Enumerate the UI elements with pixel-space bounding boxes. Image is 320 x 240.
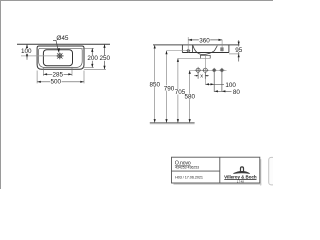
svg-text:100: 100 bbox=[225, 82, 236, 89]
svg-text:100: 100 bbox=[21, 48, 32, 55]
svg-text:Ø45: Ø45 bbox=[56, 35, 69, 42]
svg-text:Villeroy & Boch: Villeroy & Boch bbox=[224, 175, 257, 180]
svg-text:500: 500 bbox=[51, 78, 62, 85]
svg-text:360: 360 bbox=[199, 38, 210, 45]
svg-text:580: 580 bbox=[184, 94, 195, 101]
svg-text:H03 / 17.06.2021: H03 / 17.06.2021 bbox=[175, 176, 203, 180]
svg-text:95: 95 bbox=[235, 47, 243, 54]
svg-text:80: 80 bbox=[233, 89, 241, 96]
svg-text:x: x bbox=[200, 73, 203, 79]
svg-text:434253 436253: 434253 436253 bbox=[175, 165, 199, 169]
svg-text:850: 850 bbox=[150, 82, 161, 89]
svg-text:200: 200 bbox=[87, 55, 98, 62]
svg-text:250: 250 bbox=[99, 55, 110, 62]
svg-text:790: 790 bbox=[164, 85, 175, 92]
svg-text:1748: 1748 bbox=[237, 180, 245, 184]
